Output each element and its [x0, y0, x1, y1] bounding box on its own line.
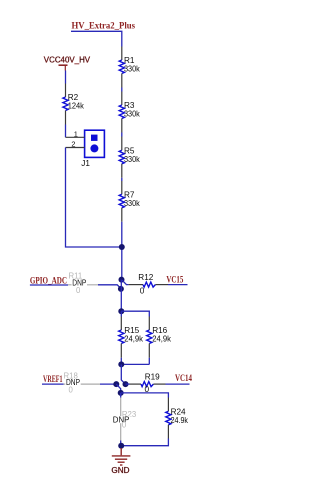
- svg-text:HV_Extra2_Plus: HV_Extra2_Plus: [72, 21, 136, 31]
- junction bottom of R15/R16: [118, 361, 124, 367]
- svg-text:GPIO_ADC: GPIO_ADC: [30, 275, 67, 285]
- wire R1 to R3: [121, 88, 123, 92]
- node GPIO_ADC net label: [30, 275, 68, 285]
- svg-text:VCC40V_HV: VCC40V_HV: [44, 55, 91, 65]
- resistor R1: [119, 47, 140, 88]
- junction bottom dot VREF node: [118, 390, 124, 396]
- svg-text:VC15: VC15: [166, 275, 183, 285]
- wire VCC40V_HV to R2: [65, 71, 67, 84]
- wire R2 to J1 pin 1: [65, 125, 67, 138]
- wire R24 bottom back to GND node: [121, 439, 168, 446]
- wire R7 down to GPIO node: [121, 222, 123, 280]
- junction upper dot GPIO node: [119, 277, 125, 283]
- wire R3 to R5: [121, 133, 123, 137]
- junction top of R15/R16: [118, 308, 124, 314]
- resistor R24: [166, 398, 189, 439]
- wire bottom dot to R24 branch: [121, 393, 169, 398]
- wire main down with jog to VREF node: [121, 364, 125, 384]
- wire R5 to R7: [121, 178, 123, 181]
- svg-text:J1: J1: [81, 159, 90, 168]
- wire R16 branch bottom: [121, 363, 149, 365]
- resistor R16: [147, 317, 172, 365]
- wire to R16 branch top: [121, 311, 149, 316]
- wire R19 to VC14: [166, 383, 190, 385]
- svg-text:VREF1: VREF1: [43, 374, 63, 384]
- svg-text:24.9k: 24.9k: [171, 416, 189, 425]
- wire R11 to main column: [98, 285, 121, 289]
- svg-text:330k: 330k: [124, 65, 141, 74]
- wire R12 to VC15: [168, 284, 188, 286]
- svg-text:330k: 330k: [124, 199, 141, 208]
- resistor R19: [126, 373, 166, 395]
- wire main column between dots: [120, 280, 122, 312]
- svg-text:24,9k: 24,9k: [152, 335, 172, 344]
- wire jog to R12: [122, 280, 129, 285]
- svg-text:0: 0: [69, 385, 74, 394]
- power port VCC40V_HV: [44, 55, 91, 71]
- resistor R18 (DNP) gray: [64, 371, 101, 394]
- svg-text:R12: R12: [138, 273, 153, 282]
- pin 2: [66, 147, 85, 149]
- resistor R12: [129, 273, 168, 296]
- junction lower dot GPIO node: [118, 286, 124, 292]
- wire R18 to left junction: [100, 383, 116, 385]
- wire jog left dot down to bottom dot: [116, 384, 120, 393]
- junction GND node: [118, 443, 124, 449]
- wire J1 pin2 down and right to main column: [66, 148, 122, 248]
- svg-text:124k: 124k: [68, 102, 85, 111]
- junction left dot VREF node: [113, 381, 119, 387]
- resistor R5: [119, 137, 140, 178]
- resistor R15: [119, 311, 144, 364]
- resistor R23 (DNP) gray vertical: [112, 393, 136, 446]
- ground GND: [111, 448, 130, 475]
- pin 1: [66, 136, 85, 138]
- resistor R3: [119, 92, 140, 133]
- resistor R11 (DNP) gray: [68, 272, 98, 296]
- svg-text:0: 0: [122, 421, 127, 430]
- svg-text:1: 1: [74, 129, 78, 138]
- svg-text:330k: 330k: [124, 155, 141, 164]
- resistor R2: [63, 84, 85, 125]
- svg-text:VC14: VC14: [175, 373, 192, 383]
- connector J1: [66, 129, 105, 168]
- node VREF1 net label: [42, 374, 64, 384]
- junction right dot VREF node: [123, 381, 129, 387]
- junction at main column y=247: [119, 244, 125, 250]
- wire top from HV_Extra2_Plus to R1: [71, 31, 122, 46]
- svg-text:GND: GND: [111, 465, 129, 475]
- resistor R7: [119, 181, 140, 222]
- svg-text:330k: 330k: [124, 110, 141, 119]
- svg-text:2: 2: [71, 140, 75, 149]
- svg-text:0: 0: [76, 286, 81, 295]
- svg-text:0: 0: [140, 287, 145, 296]
- svg-text:24,9k: 24,9k: [124, 335, 144, 344]
- svg-text:R19: R19: [145, 373, 160, 382]
